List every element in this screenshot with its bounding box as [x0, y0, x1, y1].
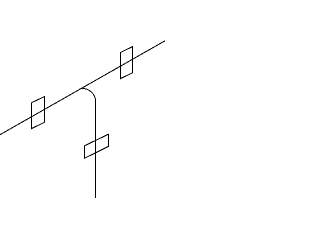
valve V1 on sloped run: [32, 97, 45, 129]
branch bend arc: [82, 88, 96, 101]
wire main sloped pipe run: [0, 41, 165, 135]
wire vertical drop leg: [95, 101, 97, 198]
valve V2 on sloped run: [121, 47, 133, 79]
valve V3 on vertical leg: [85, 134, 109, 158]
